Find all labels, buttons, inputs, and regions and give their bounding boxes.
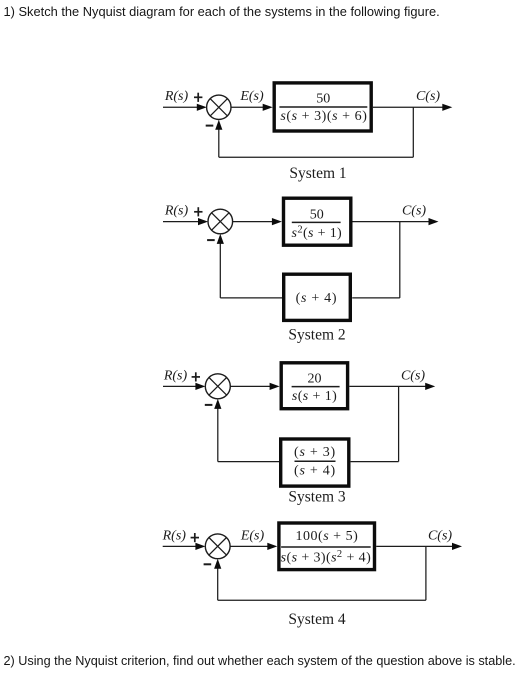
svg-text:System 1: System 1 [289, 165, 346, 182]
svg-text:50: 50 [310, 208, 324, 223]
svg-text:R(s): R(s) [162, 528, 187, 543]
svg-text:C(s): C(s) [402, 204, 426, 219]
block G1 transfer function 50/s(s+3)(s+6) [274, 83, 371, 131]
wire block G4 output to C(s), System 4 [376, 543, 462, 550]
svg-text:100(s + 5): 100(s + 5) [296, 529, 359, 544]
summing junction S1 (circle with X) [207, 95, 231, 119]
wire R(s) into summing junction S3 [163, 383, 205, 390]
svg-text:s(s + 3)(s + 6): s(s + 3)(s + 6) [280, 109, 367, 124]
svg-text:C(s): C(s) [416, 89, 440, 104]
svg-text:R(s): R(s) [164, 89, 189, 104]
wire block G1 output to C(s), System 1 [373, 104, 452, 111]
wire block G3 output to C(s), System 3 [349, 383, 435, 390]
wire E(s) from junction S4 to block G4 [230, 543, 277, 550]
plus sign at summing junction S4 [191, 533, 199, 542]
minus sign at summing junction S1 [206, 125, 214, 127]
svg-text:System 4: System 4 [288, 611, 346, 628]
svg-text:s2​(s + 1): s2​(s + 1) [292, 225, 343, 241]
wire from junction S3 to block G3 [230, 383, 279, 390]
feedback wire System 1: tap down, across, up into junction [215, 107, 413, 157]
svg-text:R(s): R(s) [164, 204, 189, 219]
svg-text:s(s + 1): s(s + 1) [292, 389, 337, 404]
minus sign at summing junction S3 [205, 404, 213, 406]
wire block G2 output to C(s), System 2 [353, 218, 439, 225]
wire E(s) from junction S1 to block G1 [231, 104, 273, 111]
plus sign at summing junction S3 [192, 372, 200, 381]
minus sign at summing junction S2 [207, 239, 215, 241]
question text 2 [4, 654, 516, 668]
feedback wire System 2: block H2 out, across, up into junction [217, 234, 282, 298]
svg-text:20: 20 [308, 371, 322, 386]
block G2 transfer function 50/s^2(s+1) [284, 198, 351, 245]
svg-text:R(s): R(s) [163, 368, 188, 383]
wire from junction S2 to block G2 [233, 218, 282, 225]
wire R(s) into summing junction S4 [163, 543, 206, 550]
svg-text:System 3: System 3 [288, 489, 346, 506]
svg-text:E(s): E(s) [240, 528, 265, 543]
block G4 transfer function 100(s+5)/s(s+3)(s^2+4) [279, 523, 375, 570]
feedback block H3 (s+3)/(s+4) [281, 439, 349, 486]
svg-text:E(s): E(s) [239, 89, 264, 104]
plus sign at summing junction S1 [194, 93, 202, 102]
feedback wire System 2: tap down into block H2 [352, 222, 400, 298]
question text 1 [4, 4, 440, 19]
minus sign at summing junction S4 [204, 563, 212, 565]
svg-text:C(s): C(s) [401, 368, 425, 383]
svg-text:(s + 4): (s + 4) [296, 291, 338, 306]
svg-text:(s + 4): (s + 4) [294, 464, 336, 479]
feedback wire System 4: tap down, across, up into junction [214, 546, 426, 600]
wire R(s) into summing junction S2 [163, 218, 208, 225]
svg-text:C(s): C(s) [428, 528, 452, 543]
summing junction S3 (circle with X) [205, 374, 230, 399]
summing junction S2 (circle with X) [208, 209, 233, 234]
feedback wire System 3: tap down into block H3 [351, 386, 399, 461]
svg-text:System 2: System 2 [288, 327, 345, 344]
plus sign at summing junction S2 [194, 207, 202, 216]
summing junction S4 (circle with X) [205, 534, 230, 559]
svg-text:50: 50 [316, 91, 330, 106]
feedback block H2 (s+4) [284, 274, 351, 320]
block G3 transfer function 20/s(s+1) [281, 363, 347, 409]
svg-text:(s + 3): (s + 3) [294, 445, 336, 460]
feedback wire System 3: block H3 out, across, up into junction [214, 399, 279, 462]
wire R(s) into summing junction S1 [163, 104, 207, 111]
svg-text:s(s + 3)(s2​ + 4): s(s + 3)(s2​ + 4) [281, 549, 371, 565]
